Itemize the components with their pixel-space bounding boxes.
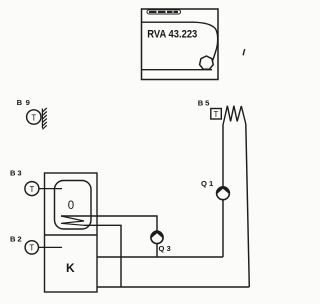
sensor B2 circle	[25, 241, 38, 254]
wire boiler flow line to Q1 branch	[97, 256, 223, 258]
pump Q1 rotor triangle	[217, 186, 230, 194]
tank and boiler outer body	[45, 173, 98, 292]
button cell 3	[167, 11, 173, 13]
button cell 2	[158, 11, 166, 13]
sensor B9 outdoor sensor circle	[27, 110, 41, 124]
svg-text:Q 1: Q 1	[201, 179, 214, 188]
pump Q3 circle	[151, 231, 163, 243]
tank / boiler divider	[45, 234, 98, 236]
svg-text:T: T	[31, 113, 36, 122]
sensor B5 flow sensor box	[211, 109, 222, 120]
pump Q1 circle	[217, 187, 230, 200]
svg-text:B 9: B 9	[17, 98, 30, 107]
sensor B2 lead into boiler	[39, 246, 63, 248]
tank heating coil	[61, 216, 84, 225]
svg-text:T: T	[29, 244, 34, 253]
svg-text:K: K	[66, 261, 75, 275]
controller top button strip	[147, 10, 181, 14]
wire radiator right leg	[246, 124, 250, 287]
button cell 1	[149, 11, 157, 13]
svg-text:B 3: B 3	[10, 169, 22, 178]
sensor B3 lead into tank	[39, 188, 62, 190]
controller U1 RVA 43.223	[142, 9, 219, 80]
svg-text:T: T	[214, 110, 219, 119]
button cell 4	[174, 11, 179, 13]
wire radiator left leg through Q1 down to boiler flow line	[222, 124, 224, 257]
controller face top line with right curve	[142, 22, 218, 70]
pump Q3 rotor triangle	[151, 230, 163, 238]
svg-text:Q 3: Q 3	[159, 244, 171, 253]
ink speck	[243, 50, 244, 55]
svg-text:T: T	[29, 185, 34, 194]
controller knob	[200, 56, 214, 69]
sensor B9 wall line with hatching	[42, 108, 46, 129]
radiator	[223, 106, 246, 124]
tank inner vessel	[55, 181, 92, 230]
controller outer case	[142, 9, 219, 80]
svg-text:B 5: B 5	[198, 99, 210, 108]
wire tank coil lower pipe down to return	[84, 225, 121, 287]
controller face bottom line	[142, 69, 213, 71]
wire boiler return line bottom	[97, 286, 249, 288]
sensor B3 circle	[25, 182, 39, 196]
svg-text:B 2: B 2	[10, 235, 22, 244]
svg-text:0: 0	[68, 200, 74, 212]
wire tank coil upper pipe to Q3	[61, 216, 157, 257]
svg-text:RVA 43.223: RVA 43.223	[147, 28, 197, 40]
